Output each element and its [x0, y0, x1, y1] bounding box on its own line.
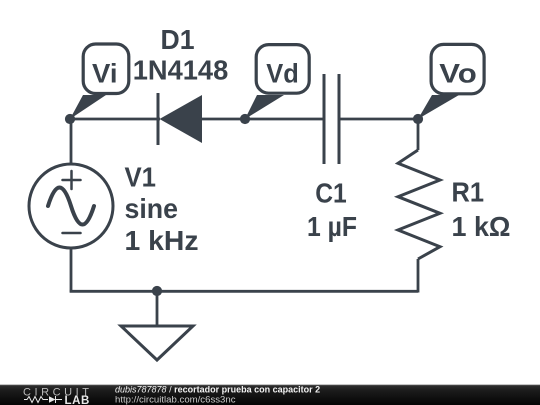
- svg-text:Vo: Vo: [439, 59, 477, 89]
- svg-text:dubis787878 / recortador prueb: dubis787878 / recortador prueba con capa…: [115, 385, 320, 395]
- svg-text:Vd: Vd: [266, 59, 299, 89]
- svg-text:LAB: LAB: [65, 395, 90, 405]
- svg-text:http://circuitlab.com/c6ss3nc: http://circuitlab.com/c6ss3nc: [115, 395, 236, 405]
- svg-text:1 µF: 1 µF: [307, 211, 357, 242]
- svg-text:sine: sine: [125, 193, 179, 224]
- svg-text:V1: V1: [125, 161, 157, 192]
- svg-text:C1: C1: [315, 178, 347, 209]
- svg-text:D1: D1: [161, 24, 195, 55]
- svg-text:R1: R1: [452, 177, 485, 208]
- svg-text:Vi: Vi: [92, 59, 118, 89]
- svg-text:1 kHz: 1 kHz: [125, 225, 199, 256]
- svg-text:1N4148: 1N4148: [133, 55, 229, 86]
- svg-text:1 kΩ: 1 kΩ: [452, 211, 511, 242]
